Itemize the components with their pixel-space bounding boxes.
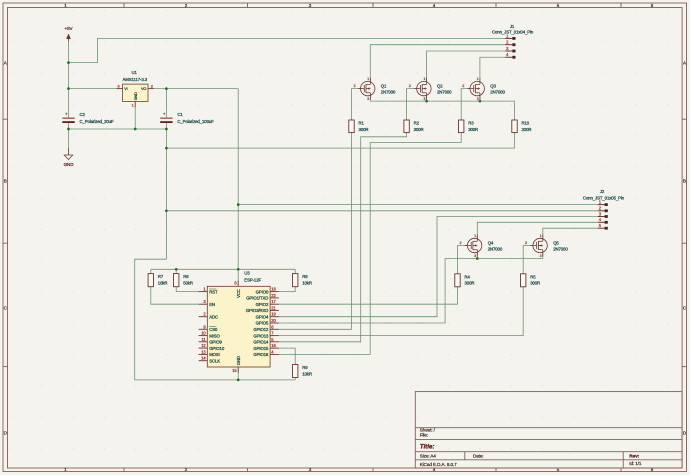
wire 3.3V branch to J2 pin1	[238, 204, 598, 206]
svg-text:CS0: CS0	[209, 327, 218, 332]
svg-text:Conn_JST_01x05_Pin: Conn_JST_01x05_Pin	[583, 196, 625, 201]
svg-text:GPIO4: GPIO4	[256, 314, 269, 319]
svg-text:17: 17	[271, 299, 276, 304]
wire Q1 gate to R1	[352, 89, 361, 120]
resistor R5 300R	[521, 274, 541, 287]
svg-text:1: 1	[540, 234, 542, 238]
wire C1 top lead	[165, 89, 167, 119]
svg-text:2: 2	[151, 84, 154, 89]
svg-text:R6: R6	[183, 274, 189, 279]
svg-text:Id: 1/1: Id: 1/1	[629, 461, 642, 466]
svg-text:3: 3	[424, 97, 426, 101]
junction 3V3 VCC pullup node	[237, 268, 240, 271]
svg-text:6: 6	[271, 324, 274, 329]
ESP pin 10 MISO	[199, 331, 221, 339]
resistor R6 50kR	[174, 274, 193, 287]
svg-text:10kR: 10kR	[302, 371, 312, 376]
svg-text:3: 3	[599, 211, 602, 216]
svg-text:R9: R9	[302, 365, 308, 370]
svg-text:4: 4	[599, 217, 602, 222]
ESP pin 1 RST	[199, 287, 218, 295]
resistor R3 300R	[459, 120, 479, 133]
junction ESP GND rail node	[237, 379, 240, 382]
ESP pin 16 GPIO15	[253, 343, 279, 351]
wire Q2 drain to J1 pin3	[427, 51, 506, 81]
transistor Q2 2N7000	[414, 77, 452, 101]
wire GND net detour left	[135, 259, 296, 380]
junction Q2 source on rail	[425, 100, 428, 103]
svg-text:GPIO10: GPIO10	[209, 346, 225, 351]
svg-text:R2: R2	[414, 121, 420, 126]
ESP pin 22 GPIO1/TXD	[246, 293, 279, 301]
wire Q4 source stub	[476, 253, 478, 259]
svg-text:SCLK: SCLK	[209, 358, 220, 363]
wire +5V step to J1 pin1 rail	[69, 38, 506, 62]
svg-text:GPIO15: GPIO15	[253, 346, 269, 351]
svg-text:R7: R7	[158, 274, 164, 279]
svg-text:1: 1	[477, 77, 479, 81]
svg-text:Date:: Date:	[473, 454, 483, 459]
svg-text:KiCad E.D.A. 8.0.7: KiCad E.D.A. 8.0.7	[420, 462, 457, 467]
svg-text:20: 20	[271, 318, 276, 323]
wire +5V vertical	[68, 42, 70, 118]
resistor R9 10kR	[293, 365, 312, 378]
svg-text:R8: R8	[302, 274, 308, 279]
junction 3V3 to J2 pin1 branch	[237, 203, 240, 206]
resistor R2 300R	[404, 120, 424, 133]
svg-text:200R: 200R	[522, 127, 532, 132]
wire R8 bottom to ESP GPIO0	[279, 287, 295, 292]
wire R7 top lead	[150, 269, 152, 273]
svg-text:VO: VO	[141, 87, 146, 91]
svg-text:10: 10	[201, 331, 206, 336]
svg-text:21: 21	[271, 305, 276, 310]
svg-text:GPIO3/RXD: GPIO3/RXD	[246, 308, 269, 313]
svg-text:GPIO12: GPIO12	[253, 327, 269, 332]
svg-text:ADC: ADC	[209, 314, 218, 319]
svg-text:RST: RST	[209, 289, 218, 294]
svg-text:8: 8	[234, 281, 237, 286]
svg-text:MISO: MISO	[209, 333, 220, 338]
svg-text:R1: R1	[359, 121, 365, 126]
wire Q5 source stub	[542, 253, 544, 259]
J1 pin 3	[505, 46, 515, 52]
svg-text:GPIO14: GPIO14	[253, 340, 269, 345]
svg-text:C2: C2	[80, 112, 86, 117]
svg-text:1: 1	[203, 287, 206, 292]
resistor R7 10kR	[148, 274, 167, 287]
svg-text:A: A	[4, 61, 7, 66]
ESP pin 6 GPIO12	[253, 324, 279, 332]
wire R4 top to Q4 gate	[458, 246, 468, 274]
wire +5V to U1 VI	[69, 88, 117, 90]
svg-text:A: A	[683, 61, 686, 66]
svg-text:R5: R5	[530, 274, 536, 279]
ESP pin 13 MOSI	[199, 349, 220, 357]
svg-text:GPIO9: GPIO9	[209, 340, 222, 345]
svg-text:Q4: Q4	[488, 240, 494, 245]
svg-text:7: 7	[271, 331, 274, 336]
svg-text:2: 2	[353, 84, 355, 88]
svg-text:1: 1	[424, 77, 426, 81]
regulator U1 AMS1117-3.3	[117, 70, 154, 107]
svg-text:Q3: Q3	[490, 83, 496, 88]
svg-text:2N7000: 2N7000	[553, 246, 568, 251]
svg-text:VI: VI	[124, 87, 127, 91]
wire R10 bottom to bundle	[514, 133, 516, 149]
junction Q4 source on rail	[476, 257, 479, 260]
svg-text:+: +	[163, 111, 166, 116]
svg-text:GND: GND	[64, 162, 75, 167]
ESP pin 21 GPIO3/RXD	[246, 305, 279, 313]
svg-text:15: 15	[232, 368, 237, 373]
wire Q3 drain to J1 pin4	[480, 57, 505, 81]
wire R5 top to Q5 gate	[523, 246, 533, 274]
svg-text:3: 3	[117, 84, 120, 89]
svg-text:1: 1	[132, 102, 135, 107]
junction C1 bottom GND node	[165, 128, 168, 131]
ESP pin 4 GPIO16	[253, 349, 279, 357]
svg-text:300R: 300R	[468, 127, 478, 132]
resistor R1 300R	[349, 120, 369, 133]
wire R1 bottom to ESP GPIO12	[279, 133, 352, 330]
svg-text:+5V: +5V	[64, 26, 73, 31]
junction C2 bottom GND node	[67, 128, 70, 131]
wire ESP GND stub to GND rail	[237, 367, 239, 380]
connector J2 Conn_JST_01x05_Pin	[583, 189, 625, 200]
wire R9 bottom to GND rail	[294, 378, 296, 380]
svg-text:J2: J2	[600, 189, 605, 194]
ESP pin 18 GPIO0	[256, 287, 279, 295]
ESP pin 2 ADC	[199, 312, 218, 320]
J1 pin 4	[505, 52, 515, 58]
wire C1 bottom lead	[165, 122, 167, 129]
svg-text:1: 1	[367, 77, 369, 81]
svg-text:+: +	[65, 111, 68, 116]
svg-text:B: B	[683, 179, 686, 184]
ESP pin 9 CS0	[199, 324, 218, 332]
wire U1 GND pin down	[134, 107, 136, 129]
ESP pin 19 GPIO4	[256, 312, 279, 320]
ESP pin 17 GPIO2	[256, 299, 279, 307]
svg-text:5: 5	[271, 337, 274, 342]
capacitor C2 C_Polarized_20uF	[62, 111, 114, 123]
wire Q3 source stub	[479, 96, 481, 101]
svg-text:3: 3	[477, 97, 479, 101]
svg-text:22: 22	[271, 293, 276, 298]
junction U1 VI node	[67, 87, 70, 90]
svg-text:2N7000: 2N7000	[381, 90, 396, 95]
wire ESP GPIO15 to R9	[279, 348, 295, 364]
svg-text:11: 11	[202, 337, 207, 342]
svg-text:2: 2	[599, 206, 602, 211]
ESP pin 11 GPIO9	[199, 337, 223, 345]
junction Q3 source on rail	[479, 100, 482, 103]
svg-text:Conn_JST_01x04_Pin: Conn_JST_01x04_Pin	[492, 30, 534, 35]
svg-text:2: 2	[203, 312, 206, 317]
wire 3.3V pullup rail R7 R6 VCC R8	[151, 268, 295, 270]
svg-text:U1: U1	[132, 70, 138, 75]
svg-text:3: 3	[203, 299, 206, 304]
wire GND net vertical below C1	[165, 129, 167, 259]
svg-text:C_Polarized_100uF: C_Polarized_100uF	[177, 119, 214, 124]
svg-text:File:: File:	[420, 433, 428, 438]
svg-text:B: B	[4, 179, 7, 184]
svg-text:GND: GND	[134, 92, 138, 100]
junction GND to R10 branch	[165, 147, 168, 150]
ESP pin 20 GPIO5	[256, 318, 279, 326]
svg-text:2: 2	[409, 84, 411, 88]
svg-text:12: 12	[201, 343, 206, 348]
title block text	[420, 427, 642, 467]
J1 pin 2	[505, 40, 515, 47]
svg-text:3: 3	[540, 254, 542, 258]
svg-text:3: 3	[474, 254, 476, 258]
svg-text:3: 3	[367, 97, 369, 101]
svg-text:2: 2	[462, 84, 464, 88]
junction R6 top node	[175, 268, 178, 271]
J2 pin 5	[598, 223, 608, 230]
svg-text:Sheet: /: Sheet: /	[420, 427, 436, 432]
wire R3 bottom to ESP GPIO16	[279, 133, 461, 355]
svg-text:1: 1	[474, 234, 476, 238]
svg-text:MOSI: MOSI	[209, 352, 220, 357]
svg-text:C_Polarized_20uF: C_Polarized_20uF	[80, 119, 114, 124]
wire R7 bottom to ESP EN	[151, 287, 199, 305]
svg-text:13: 13	[201, 349, 206, 354]
power symbol +5V	[64, 26, 73, 42]
wire C2 bottom to GND symbol	[68, 122, 70, 148]
wire ESP GPIO13 to R5	[279, 287, 523, 336]
wire Q3 gate to R3	[461, 89, 470, 120]
junction +5V rail tap	[67, 61, 70, 64]
svg-text:18: 18	[271, 287, 276, 292]
svg-text:300R: 300R	[465, 281, 475, 286]
J2 pin 2	[598, 206, 608, 213]
svg-text:R10: R10	[522, 121, 530, 126]
svg-text:C1: C1	[177, 112, 183, 117]
wire Q1 drain to J1 pin2	[370, 45, 505, 82]
svg-text:300R: 300R	[530, 281, 540, 286]
svg-text:Title:: Title:	[420, 444, 435, 451]
wire Q2 gate to R2	[407, 89, 417, 120]
svg-text:Size: A4: Size: A4	[420, 454, 437, 459]
wire 3.3V vertical down to ESP VCC	[237, 89, 239, 270]
ESP pin 5 GPIO14	[253, 337, 279, 345]
wire ESP GPIO2 to R4	[279, 287, 458, 304]
transistor Q5 2N7000	[530, 234, 568, 258]
svg-text:9: 9	[203, 324, 206, 329]
svg-text:AMS1117-3.3: AMS1117-3.3	[123, 77, 148, 82]
ESP pin 3 EN	[199, 299, 215, 307]
svg-text:2N7000: 2N7000	[490, 90, 505, 95]
svg-text:VCC: VCC	[236, 289, 241, 298]
resistor R8 10kR	[293, 274, 312, 287]
svg-text:5: 5	[599, 223, 602, 228]
ESP pin 8 VCC	[234, 281, 241, 298]
svg-text:10kR: 10kR	[158, 281, 168, 286]
svg-text:GPIO5: GPIO5	[256, 321, 269, 326]
svg-text:J1: J1	[510, 24, 515, 29]
J2 pin 4	[598, 217, 608, 224]
svg-text:R3: R3	[468, 121, 474, 126]
transistor Q1 2N7000	[358, 77, 396, 101]
svg-text:300R: 300R	[359, 127, 369, 132]
wire ESP VCC stub	[237, 269, 239, 286]
wire Q5 drain to J2 pin5	[543, 228, 598, 238]
svg-text:GPIO0: GPIO0	[256, 289, 269, 294]
junction U1 GND node	[134, 128, 137, 131]
svg-text:U3: U3	[244, 270, 250, 275]
svg-text:GND: GND	[236, 356, 241, 365]
ESP pin 14 SCLK	[199, 356, 221, 364]
svg-text:300R: 300R	[414, 127, 424, 132]
ESP pin 12 GPIO10	[199, 343, 225, 351]
resistor R4 300R	[455, 274, 475, 287]
J2 pin 1	[598, 200, 608, 207]
svg-text:GPIO16: GPIO16	[253, 352, 269, 357]
ESP pin 7 GPIO13	[253, 331, 279, 339]
svg-text:Q1: Q1	[381, 83, 387, 88]
svg-text:R4: R4	[465, 274, 471, 279]
wire Q2 source stub	[426, 96, 428, 101]
svg-text:GPIO1/TXD: GPIO1/TXD	[246, 296, 268, 301]
wire ground horizontal C2-U1-C1	[69, 128, 167, 130]
wire R8 top lead	[294, 269, 296, 273]
wire ESP GPIO4 to J2 pin3	[279, 217, 598, 317]
svg-text:4: 4	[271, 349, 274, 354]
J1 pin 1	[505, 33, 515, 40]
svg-text:D: D	[4, 431, 8, 436]
svg-text:19: 19	[271, 312, 276, 317]
svg-text:GPIO13: GPIO13	[253, 333, 269, 338]
svg-text:4: 4	[506, 52, 509, 57]
svg-text:2N7000: 2N7000	[437, 90, 452, 95]
svg-text:2N7000: 2N7000	[488, 246, 503, 251]
ground symbol GND	[64, 148, 75, 167]
title block	[415, 392, 682, 468]
svg-text:2: 2	[525, 241, 527, 245]
svg-text:2: 2	[459, 241, 461, 245]
svg-text:16: 16	[271, 343, 276, 348]
module U3 ESP-12F	[207, 270, 270, 367]
wire ESP GPIO5 to Q4 Q5 source rail	[279, 259, 543, 324]
svg-text:GPIO2: GPIO2	[256, 302, 269, 307]
svg-text:50kR: 50kR	[183, 281, 193, 286]
wire R2 bottom to ESP GPIO14	[279, 133, 407, 342]
wire R6 top lead	[175, 269, 177, 273]
resistor R10 200R	[512, 120, 532, 133]
wire GND branch to R10 bundle line	[166, 147, 514, 149]
svg-text:Rev:: Rev:	[629, 453, 639, 459]
svg-text:14: 14	[201, 356, 206, 361]
svg-text:ESP-12F: ESP-12F	[244, 278, 261, 283]
wire U1 VO to 3.3V corner	[154, 88, 238, 90]
svg-text:Q5: Q5	[553, 240, 559, 245]
junction GND to J2 pin2 branch	[165, 209, 168, 212]
transistor Q4 2N7000	[465, 234, 503, 258]
ESP pin 15 GND	[232, 356, 241, 373]
J2 pin 3	[598, 211, 608, 218]
wire GND branch to J2 pin2	[166, 210, 597, 212]
wire Q4 drain to J2 pin4	[477, 222, 598, 238]
wire R6 bottom to ESP RST	[176, 287, 198, 292]
svg-text:C: C	[4, 306, 8, 311]
svg-text:3: 3	[506, 46, 509, 51]
transistor Q3 2N7000	[468, 77, 506, 101]
connector J1 Conn_JST_01x04_Pin	[492, 24, 534, 35]
svg-text:10kR: 10kR	[302, 281, 312, 286]
junction C1 top 3V3 node	[165, 87, 168, 90]
svg-text:2: 2	[506, 40, 509, 45]
capacitor C1 C_Polarized_100uF	[160, 111, 214, 123]
svg-text:EN: EN	[209, 302, 215, 307]
svg-text:Q2: Q2	[437, 83, 443, 88]
wire source rail Q1 Q2 Q3 to R10	[370, 96, 514, 120]
